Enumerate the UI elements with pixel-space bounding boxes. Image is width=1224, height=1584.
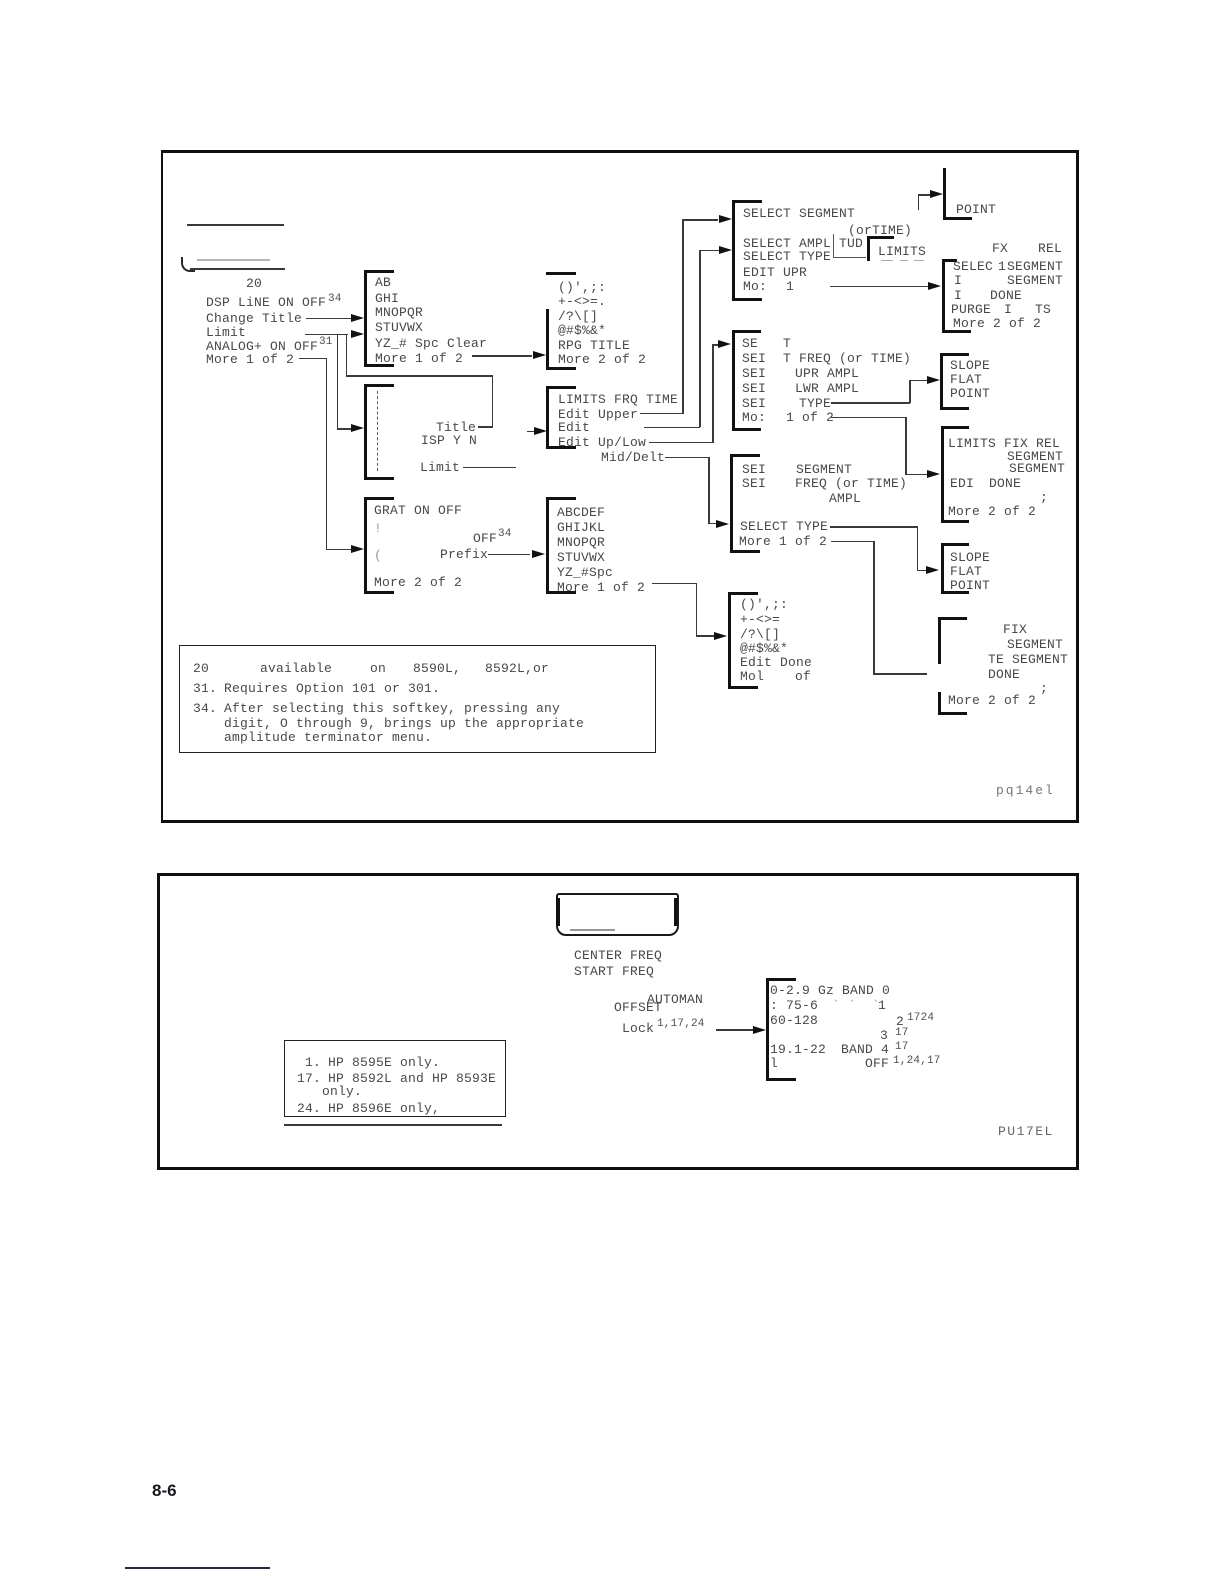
arrow into boxR bbox=[533, 351, 546, 359]
arrow into box7 bbox=[714, 632, 727, 640]
boxD FIX REL bracket bbox=[942, 259, 945, 333]
boxR rows bbox=[558, 281, 606, 294]
PU17EL label bbox=[998, 1125, 1054, 1138]
boxA SELECT SEGMENT bracket bbox=[732, 200, 735, 301]
boxD rows bbox=[992, 242, 1008, 255]
note fig2 rows bbox=[305, 1056, 321, 1069]
boxH rows bbox=[1003, 623, 1027, 636]
wire Limit down bbox=[337, 334, 339, 429]
note box fig2 bbox=[284, 1040, 506, 1117]
arrow into box5 bbox=[532, 550, 545, 558]
boxH FIX SEGMENT bracket bbox=[938, 617, 967, 620]
arrow into box4 bbox=[351, 545, 364, 553]
note row 34 bbox=[193, 702, 217, 715]
SLOPE1 box bbox=[940, 353, 969, 356]
menu1 row More 1 of 2 bbox=[206, 353, 294, 366]
wire More down bbox=[326, 358, 328, 549]
box3 Title label bbox=[436, 421, 476, 434]
menu1 row Limit bbox=[206, 326, 246, 339]
fig1: keycap bottom-left corner bbox=[181, 257, 195, 272]
wire Mid/Delt bbox=[665, 457, 709, 459]
boxC rows bbox=[742, 337, 758, 350]
menu1 row DSP LINE ON OFF bbox=[206, 296, 326, 309]
fig2 keycap bbox=[556, 893, 679, 936]
box2 rows bbox=[375, 276, 391, 289]
boxE rows bbox=[558, 393, 678, 406]
menu1 row ANALOG+ ON OFF bbox=[206, 340, 318, 353]
note row 31 bbox=[193, 682, 217, 695]
wire Lock arrow bbox=[716, 1029, 754, 1031]
note box fig1 bbox=[179, 645, 656, 753]
footer rule bbox=[125, 1567, 270, 1569]
limits fragment underline bbox=[833, 257, 866, 258]
wire Limit bbox=[305, 334, 348, 336]
arrow into box3 bbox=[351, 424, 364, 432]
note row 20 bbox=[193, 662, 209, 675]
arrow into SLOPE1 bbox=[927, 376, 940, 384]
arrow into band box bbox=[753, 1026, 766, 1034]
faded dashes under LIMITS bbox=[881, 260, 893, 262]
arrow into boxE bbox=[527, 431, 537, 433]
arrow into boxA second bbox=[719, 246, 732, 254]
band box bracket bbox=[766, 978, 769, 1080]
wire box5 More bbox=[652, 583, 697, 585]
CENTER FREQ bbox=[574, 949, 662, 962]
wire Edit Up/Low bbox=[649, 442, 713, 444]
wire into box3 bbox=[337, 428, 351, 430]
arrow into box6 bbox=[716, 520, 729, 528]
SLOPE2 box bbox=[941, 543, 969, 546]
box2 ABCDEF bracket bbox=[364, 270, 367, 367]
box5 rows bbox=[557, 506, 605, 519]
arrow into boxC bbox=[718, 340, 731, 348]
band rows bbox=[770, 984, 890, 997]
wire Title horizontal bbox=[346, 375, 493, 377]
box4 rows bbox=[374, 504, 462, 517]
wire Title hook bbox=[478, 426, 493, 428]
box3 ISP Y N bbox=[421, 434, 477, 447]
figure 1 frame bbox=[161, 150, 1079, 823]
pq14el label bbox=[996, 784, 1055, 797]
boxR RPG TITLE bracket bbox=[546, 272, 576, 275]
Mid/Delt label bbox=[601, 451, 665, 464]
boxG LIMITS FIX REL bracket bbox=[941, 426, 944, 523]
LIMITS small label bbox=[878, 245, 926, 258]
footer page number bbox=[152, 1481, 177, 1501]
wire Edit Upper bbox=[640, 413, 683, 415]
fig1: faded keycap bbox=[197, 259, 270, 261]
Lock bbox=[622, 1022, 654, 1035]
AUTOMAN bbox=[647, 993, 703, 1006]
POINT hook wire bbox=[918, 195, 920, 210]
arrow into SLOPE2 bbox=[926, 566, 939, 574]
START FREQ bbox=[574, 965, 654, 978]
arrow into boxA top bbox=[719, 215, 732, 223]
wire box2 More to boxR bbox=[472, 355, 532, 357]
wire More 1 of 2 bbox=[299, 358, 327, 360]
wire into box4 bbox=[326, 549, 351, 551]
menu1 row Change Title bbox=[206, 312, 302, 325]
arrow into boxG bbox=[927, 470, 940, 478]
arrow into box2 (Change Title) bbox=[351, 314, 364, 322]
menu1 label 20 bbox=[246, 277, 262, 290]
arrow into boxD bbox=[928, 282, 941, 290]
wire Edit bbox=[644, 427, 700, 429]
wire Title riser bbox=[346, 335, 348, 376]
boxC bracket bbox=[732, 330, 735, 430]
figure 2 frame bbox=[157, 873, 1079, 1170]
wire boxC TYPE to SLOPE1 bbox=[831, 402, 910, 404]
box7 edit-done bracket bbox=[728, 592, 731, 690]
box6 rows bbox=[742, 463, 766, 476]
boxE LIMITS FRQ TIME bracket bbox=[546, 386, 576, 389]
arrow into POINT bbox=[930, 190, 943, 198]
box7 rows bbox=[740, 598, 788, 611]
wire Title drop bbox=[492, 375, 494, 427]
fig1: keycap remnant line bbox=[187, 224, 284, 226]
OFFSET bbox=[614, 1001, 662, 1014]
wire boxC More to boxG bbox=[831, 417, 906, 419]
arrow into box2 (Title path) bbox=[351, 330, 364, 338]
box6 SELECT TYPE bracket bbox=[730, 454, 733, 552]
boxA rows bbox=[743, 207, 855, 220]
box5 ABCDEF bracket bbox=[546, 497, 549, 594]
wire boxA More to boxD bbox=[830, 286, 929, 288]
box3 dashed column bbox=[377, 391, 378, 471]
boxG rows bbox=[948, 437, 1060, 450]
keycap faded label bbox=[570, 929, 615, 931]
ampl-tud divider bbox=[833, 234, 834, 258]
wire box6 More down bbox=[831, 541, 874, 543]
wire Change Title bbox=[306, 318, 353, 320]
box3 Limit line bbox=[463, 467, 516, 469]
wire Prefix bbox=[488, 554, 530, 556]
box3 limits-disp bracket bbox=[364, 384, 367, 481]
POINT box bbox=[943, 168, 946, 220]
wire box6 TYPE to SLOPE2 bbox=[830, 526, 918, 528]
limits fragment corner bbox=[867, 236, 894, 239]
box4 GRAT bracket bbox=[364, 497, 367, 594]
note box fig2 underline bbox=[284, 1124, 502, 1126]
box3 Limit label bbox=[420, 461, 460, 474]
